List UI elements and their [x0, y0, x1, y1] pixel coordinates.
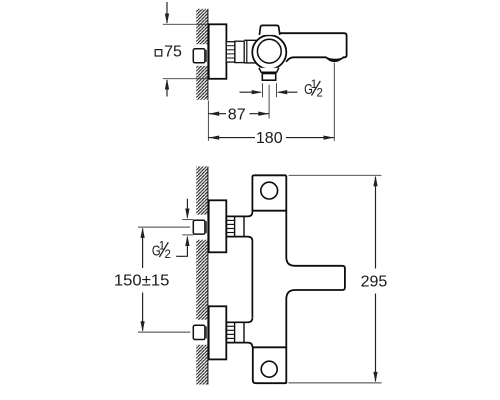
cartridge inner circle (top drawing) [257, 39, 281, 63]
bottom tab top edge [253, 346, 286, 348]
supply stub upper (bottom drawing) [193, 220, 206, 234]
svg-text:75: 75 [164, 44, 182, 61]
valve housing outer circle (top drawing) [252, 35, 286, 69]
lower connector outline (bottom drawing) [226, 318, 252, 348]
supply stub (top drawing) [193, 49, 206, 63]
svg-text:295: 295 [361, 274, 388, 291]
G1/2 extension line upper (bottom drawing) [182, 219, 193, 221]
extension line outlet right [276, 83, 278, 97]
wall face line (bottom drawing) [207, 167, 209, 385]
svg-text:180: 180 [256, 130, 283, 147]
G1/2 dim arrow right (top drawing) [277, 90, 298, 94]
upper connector outline (bottom drawing) [226, 211, 252, 318]
top cap / diverter knob (top drawing) [259, 25, 279, 35]
outlet threaded nub G1/2 (top drawing) [262, 74, 275, 81]
outlet centerline [268, 85, 270, 119]
dimension 150±15 [114, 227, 170, 332]
G1/2 arrow above (bottom drawing) [185, 199, 189, 219]
knurled nut (top drawing) [226, 42, 235, 62]
body outline (bottom drawing) [252, 175, 345, 383]
295 extension line top [289, 174, 382, 176]
wall face line (top drawing) [207, 9, 209, 100]
G1/2 extension line lower (bottom drawing) [182, 234, 193, 236]
escutcheon plate upper (bottom drawing) [209, 200, 227, 252]
wall hatch (top drawing) [196, 9, 208, 100]
escutcheon plate (top drawing) [209, 24, 227, 79]
label G1/2 (top drawing) [304, 79, 323, 100]
wall hatch (bottom drawing) [196, 167, 208, 385]
150 extension line bottom [138, 331, 190, 333]
handle circle top (bottom drawing) [261, 182, 278, 199]
spout (top drawing) [280, 33, 347, 62]
wall extension line below (87/180) [207, 101, 209, 141]
G1/2 arrow below with leader (bottom drawing) [176, 235, 189, 256]
spout outlet extension line (180) [333, 63, 335, 141]
dimension 295 [361, 176, 388, 383]
dimension arrow 75 bottom [165, 79, 169, 97]
extension line bottom of square 75 [163, 78, 209, 80]
svg-text:87: 87 [228, 106, 246, 123]
supply stub lower (bottom drawing) [193, 325, 206, 339]
G1/2 dim arrow left (top drawing) [240, 90, 263, 94]
spout outlet (black crescent) [326, 57, 343, 62]
handle circle bottom (bottom drawing) [261, 361, 277, 377]
295 extension line bottom [289, 382, 382, 384]
top tab bottom edge [252, 210, 286, 212]
svg-text:150±15: 150±15 [114, 273, 170, 290]
label square-75 [155, 44, 182, 61]
outlet collar under housing (top drawing) [259, 68, 279, 72]
connector stem (top drawing) [244, 40, 257, 63]
label G1/2 (bottom drawing) [152, 240, 171, 261]
escutcheon plate lower (bottom drawing) [209, 306, 227, 359]
svg-text:2: 2 [317, 88, 323, 100]
dimension 87 [208, 106, 269, 123]
150 extension line top [138, 226, 190, 228]
dimension arrow 75 top [165, 2, 169, 24]
dimension 180 [208, 130, 334, 147]
extension line outlet left [262, 83, 264, 97]
connector piece (top drawing) [235, 41, 244, 62]
extension line top of square 75 [163, 23, 209, 25]
svg-text:2: 2 [165, 249, 171, 261]
